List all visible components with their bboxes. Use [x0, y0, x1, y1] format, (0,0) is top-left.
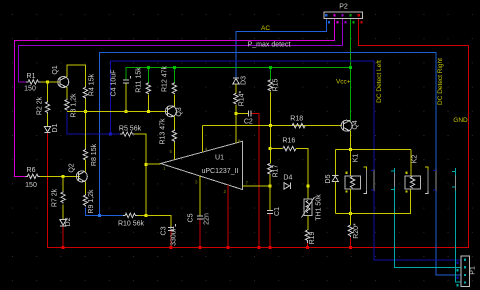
wire R12 bottom to Q3 collector [173, 95, 175, 107]
svg-text:R17: R17 [273, 164, 280, 177]
svg-text:R7 2k: R7 2k [51, 188, 58, 207]
svg-text:C2: C2 [244, 119, 253, 126]
wire R15 bottom to R18 rail [269, 92, 271, 126]
svg-text:Vcc+: Vcc+ [336, 79, 351, 86]
diode D1 [44, 127, 50, 133]
wire green stub to R15 top [269, 68, 271, 80]
pin numbers P1 left of box [457, 262, 459, 287]
wire relay coil top rail [335, 148, 411, 150]
wire R1 to Q1 base junction [41, 81, 60, 83]
svg-text:P2: P2 [339, 4, 348, 11]
wire Q1 collector up and right to R4 top [67, 65, 86, 86]
node red junction R19 [306, 246, 309, 249]
wire red C2 to rail [251, 113, 259, 247]
svg-text:Q4: Q4 [352, 120, 359, 129]
svg-text:U1: U1 [215, 155, 224, 162]
svg-text:K1: K1 [353, 154, 360, 163]
wire Q1 emitter down to R3 [66, 87, 68, 99]
svg-text:D5: D5 [325, 174, 332, 183]
node junction R14/C2/pin8 [234, 112, 237, 115]
wire R6 to Q2 base junction [40, 175, 80, 177]
node red junction C5 [199, 246, 202, 249]
svg-text:R11 15k: R11 15k [136, 67, 143, 93]
wire TH1 bottom to R19 [307, 216, 309, 231]
wire Q3 base rail [67, 110, 168, 112]
resistor R10 [123, 213, 138, 217]
wire red stub R20 to rail [349, 238, 351, 248]
svg-text:C4 10uF: C4 10uF [111, 70, 118, 97]
svg-text:Q3: Q3 [176, 107, 183, 116]
relay K2 contact pole1 fixed bar [425, 167, 428, 194]
wire D5 to bottom rail [334, 182, 336, 214]
wire D3 to R14 [235, 84, 237, 93]
svg-text:P_max detect: P_max detect [248, 42, 291, 49]
connector P1 [461, 256, 470, 287]
node junction R4/rail [84, 110, 87, 113]
svg-text:AC: AC [261, 25, 270, 32]
diode D2 [60, 220, 66, 226]
svg-text:Q2: Q2 [69, 163, 76, 172]
wire Q3 emitter down to R13 [173, 116, 175, 129]
wire junction to C3 [146, 216, 171, 228]
node junction pin7/R17/C1/D4 [268, 184, 271, 187]
wire U1 pin1 lead [146, 163, 161, 165]
node red junction pin2 [227, 246, 230, 249]
thermistor TH1 [302, 197, 315, 218]
wire relay coil bottom rail [335, 189, 410, 214]
wire green stub to R12 top [173, 68, 175, 83]
wire teal K1 pole2 down to P1 pin2 [394, 186, 461, 267]
node junction R16 left [268, 147, 271, 150]
capacitor C2 [248, 110, 251, 116]
wire green stub to R11 top [147, 68, 149, 83]
resistor R19 [305, 230, 309, 243]
svg-text:R15: R15 [273, 78, 280, 91]
resistor R15 [268, 80, 272, 92]
node red junction C1 [268, 246, 271, 249]
svg-text:D1: D1 [52, 123, 59, 132]
node green junction Vcc bus at P2 pin4 column [349, 66, 352, 69]
relay K1 contact pole1 moving bar on DC Detect Left line [371, 170, 374, 192]
node junction C4 bottom on base rail [125, 110, 128, 113]
node red junction R20 [349, 246, 352, 249]
wire red stub U1 pin2 to rail [227, 185, 229, 248]
svg-text:R9 1,2k: R9 1,2k [88, 189, 95, 214]
wire green Vcc bus horizontal to C4 [126, 68, 351, 80]
node red junction C2 [257, 246, 260, 249]
svg-text:R2 2k: R2 2k [37, 96, 44, 115]
wire red GND net: P2 pin5 right border and bottom rail up to D1 [48, 19, 469, 248]
wire DC Detect Right royal blue: left vertical, top bus, right vertical to P1 pin3 [99, 53, 461, 275]
resistor R11 [146, 83, 150, 95]
svg-text:R14*: R14* [238, 90, 245, 106]
wire junction to C2 left plate [236, 112, 249, 114]
wire red stub R19 to rail [307, 243, 309, 248]
capacitor C3 [168, 224, 176, 230]
wire navy R3 bottom to R5 left [67, 113, 120, 135]
relay K2 coil [410, 149, 412, 176]
svg-text:150: 150 [25, 182, 37, 189]
wire green Vcc net P2 pin4 down to Q4 collector [350, 19, 352, 121]
node junction R15/R17 on rail [269, 124, 272, 127]
resistor R8 [83, 149, 87, 162]
resistor R14* [234, 93, 238, 105]
wire DC Detect Left navy: left vertical, bus, right vertical to P1 pin1 [110, 61, 461, 260]
wire C1 top lead [269, 186, 271, 210]
resistor R7 [62, 176, 64, 191]
svg-text:P1: P1 [470, 266, 477, 275]
node junction R1/R2/Q1 base [46, 81, 49, 84]
svg-text:R1: R1 [27, 73, 36, 80]
svg-text:R5 56k: R5 56k [119, 126, 142, 133]
relay K2 contact pole1 moving bar on DC Detect Right line [433, 170, 436, 192]
svg-text:R13 47k: R13 47k [160, 118, 167, 145]
svg-text:DC Detect Right: DC Detect Right [437, 58, 444, 105]
svg-text:uPC1237_II: uPC1237_II [202, 168, 239, 175]
svg-text:R16: R16 [282, 138, 295, 145]
resistor R1 [26, 80, 40, 84]
wire left branch down to D5 [334, 149, 336, 175]
wire AC net blue: P2 pin1 down, left, down to D3 [236, 19, 326, 78]
node blue junction R9-R10 line [98, 214, 101, 217]
wire R14 to junction [235, 105, 237, 114]
svg-text:R4 15k: R4 15k [88, 73, 95, 96]
relay K1 contact pole1 fixed bar [363, 167, 366, 194]
wire magenta net P2 pin2 to R6 [15, 19, 335, 177]
transistor Q3 [165, 106, 176, 117]
diode D5 [332, 176, 338, 182]
resistor R5 [120, 132, 135, 136]
resistor R12 [172, 83, 176, 95]
wire R13 bottom to U1 pin5 [173, 142, 175, 160]
svg-text:Q1: Q1 [52, 65, 59, 74]
svg-text:R3 1,2k: R3 1,2k [71, 93, 78, 118]
node junction R6/R7/Q2 base [62, 175, 65, 178]
resistor R2 [47, 82, 49, 101]
node junction D4 cathode / R16-TH1 column [307, 184, 310, 187]
resistor R6 [26, 174, 40, 178]
connector P2 [324, 12, 362, 19]
wire red stub C3 to rail [170, 230, 172, 247]
diode D4 [284, 183, 291, 189]
node junction Q4/K1 coil [349, 148, 352, 151]
svg-text:R6: R6 [27, 167, 36, 174]
svg-text:C5: C5 [188, 213, 195, 222]
wire R15 junction down to R16 junction and R17 [269, 126, 271, 164]
wire R16 right corner down to TH1 [296, 149, 308, 199]
node green junction R11 [147, 66, 150, 69]
node navy junction R5 line [109, 133, 112, 136]
relay K1 contact pole2 bar [391, 171, 395, 190]
relay K2 contact pole2 bar [452, 172, 456, 191]
op-amp U1 uPC1237 body [161, 141, 243, 189]
resistor R4 [83, 86, 87, 99]
svg-text:R20*: R20* [353, 223, 360, 239]
wire R18 rail from pin4 corner to Q4 base [202, 125, 342, 127]
pin numbers P2 below box [328, 21, 362, 24]
wire purple net P2 pin3 to R1 [19, 19, 343, 82]
svg-text:22n: 22n [204, 213, 211, 225]
node junction R11/rail [147, 110, 150, 113]
wire R10 right to junction [138, 215, 146, 217]
node green junction R15 [269, 66, 272, 69]
svg-text:D4: D4 [283, 175, 292, 182]
wire red stub C1 to rail [269, 213, 271, 247]
node junction U1 pin1 tap [144, 163, 147, 166]
wire Q4 emitter down to relay rail [349, 131, 351, 150]
resistor R3 [65, 99, 69, 111]
svg-text:R19: R19 [309, 231, 316, 244]
wire U1 pin3 lead down to C5 [199, 176, 201, 216]
resistor R20* [349, 213, 351, 225]
node red junction C3 [169, 246, 172, 249]
wire R11 bottom to base rail [147, 95, 149, 112]
capacitor C1 [267, 210, 273, 213]
transistor Q1 [58, 77, 69, 88]
svg-text:GND: GND [453, 117, 468, 124]
wire R2 to D1 [47, 113, 49, 126]
svg-text:R12 47k: R12 47k [161, 65, 168, 92]
capacitor C5 [197, 216, 203, 219]
wire red stub D2 to rail [62, 226, 64, 248]
relay K1 coil [349, 149, 351, 176]
svg-text:C3: C3 [161, 226, 168, 235]
wire U1 pin8 lead from R14 junction [235, 113, 237, 143]
wire R17 bottom to pin7 line [269, 175, 271, 186]
pin number K1 coil marks [346, 172, 348, 193]
resistor R16 [270, 148, 283, 150]
node junction R10/C3 line [144, 214, 147, 217]
node junction R20 tap on bottom rail [349, 212, 352, 215]
pin number K2 coil marks [406, 172, 408, 193]
diode D3 [233, 78, 239, 84]
resistor R9 [83, 194, 87, 207]
wire teal K2 pole2 open stub up [454, 168, 456, 176]
svg-text:TH1 50k: TH1 50k [315, 194, 322, 221]
wire teal K2 pole2 down to P1 pin4 [455, 191, 461, 282]
wire red stub C5 to rail [199, 219, 201, 247]
wire R7 to D2 [62, 205, 64, 220]
resistor R18 [292, 124, 305, 128]
node red junction D2 [62, 246, 65, 249]
wire U1 pin4 lead from R18 rail [201, 126, 203, 153]
wire U1 pin2 red stub [227, 185, 229, 190]
wire R4 bottom to base rail and on down to R8 top [85, 99, 87, 149]
svg-text:150: 150 [24, 86, 36, 93]
wire teal K1 pole2 open stub up [393, 168, 395, 173]
svg-text:330uF: 330uF [171, 226, 178, 246]
resistor R13 [172, 130, 176, 143]
resistor R17 [268, 164, 272, 175]
svg-text:R8 15k: R8 15k [91, 143, 98, 166]
wire R8 bottom to Q2 collector [85, 160, 87, 172]
wire royal blue R9 bottom to R10 left [86, 208, 124, 216]
svg-text:K2: K2 [411, 155, 418, 164]
wire Q2 emitter down to R9 [85, 182, 87, 195]
wire U1 pin7 lead right to R17/C1 junction [243, 185, 270, 187]
svg-text:DC Detect Left: DC Detect Left [376, 60, 383, 103]
wire R5 right to pin1 column [135, 134, 146, 215]
svg-text:R10 56k: R10 56k [118, 221, 145, 228]
wire K1 coil bottom to rail [349, 189, 351, 214]
svg-text:D3: D3 [240, 76, 247, 85]
svg-text:C1: C1 [274, 207, 281, 216]
transistor Q2 [76, 171, 87, 182]
node green junction R12 [173, 66, 176, 69]
transistor Q4 [341, 120, 352, 131]
svg-text:R18: R18 [290, 116, 303, 123]
svg-text:D2: D2 [65, 217, 72, 226]
capacitor C4 [125, 83, 127, 111]
